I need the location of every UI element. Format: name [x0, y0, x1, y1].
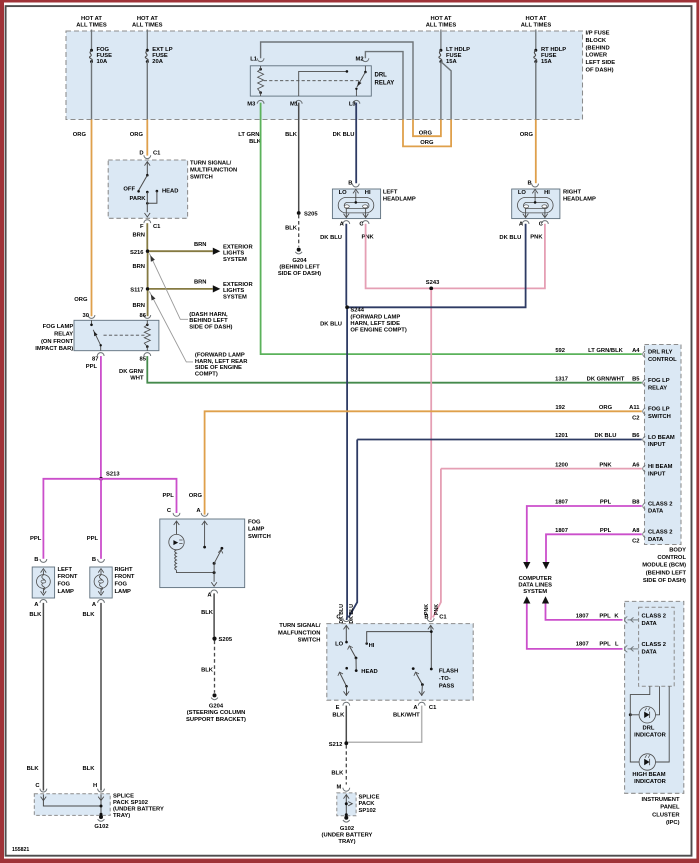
turn signal malfunction switch box (lower) — [327, 624, 473, 701]
Left Headlamp inner lamp stadium — [344, 202, 369, 208]
terminal 30 — [88, 315, 95, 318]
svg-text:TRAY): TRAY) — [338, 839, 355, 845]
svg-text:OF ENGINE COMPT): OF ENGINE COMPT) — [350, 328, 406, 334]
svg-text:F: F — [140, 224, 144, 230]
svg-text:DATA LINES: DATA LINES — [518, 582, 552, 588]
contact LO — [345, 641, 348, 644]
svg-text:DK BLU: DK BLU — [499, 235, 521, 241]
svg-text:HOT AT: HOT AT — [137, 16, 158, 22]
wire BLK dashed: S205 to G204 steering column — [214, 641, 216, 693]
Right Front Fog Lamp box — [90, 567, 112, 598]
wire PPL: fog relay 87 to S213 — [100, 356, 102, 477]
svg-text:DATA: DATA — [642, 649, 658, 655]
terminal L1 — [257, 58, 264, 61]
svg-text:SPLICE: SPLICE — [113, 794, 134, 800]
splice S205 (steering column) — [212, 637, 216, 641]
contact OFF — [137, 190, 140, 193]
svg-text:M: M — [336, 785, 341, 791]
svg-text:SYSTEM: SYSTEM — [223, 295, 247, 301]
Left Headlamp box — [332, 189, 380, 219]
svg-text:DRL: DRL — [375, 73, 388, 79]
svg-text:B: B — [34, 557, 38, 563]
svg-text:SWITCH: SWITCH — [298, 638, 321, 644]
wire LT HDLP fuse output straight down — [440, 62, 442, 120]
svg-text:1807: 1807 — [555, 500, 568, 506]
Right Front Fog Lamp internal wires — [98, 569, 104, 573]
fuse EXT LP FUSE 20A — [146, 49, 149, 52]
svg-text:C1: C1 — [439, 615, 447, 621]
wire BLK dashed: S205 to G204 — [298, 215, 300, 247]
wire DK BLU: S244 down to malfunction switch C — [346, 309, 349, 620]
svg-text:(BEHIND: (BEHIND — [586, 45, 610, 51]
Right Headlamp HI socket — [542, 205, 547, 208]
Left Headlamp terminal B — [352, 184, 359, 187]
splice pack SP102 internal bus — [344, 795, 350, 799]
svg-text:DRL RLY: DRL RLY — [648, 349, 673, 355]
svg-text:LO BEAM: LO BEAM — [648, 435, 675, 441]
contact HI — [365, 642, 368, 645]
Right Front Fog Lamp terminal B — [98, 559, 105, 562]
Left Headlamp terminal A — [343, 221, 350, 224]
svg-text:LAMP: LAMP — [58, 589, 75, 595]
svg-text:SIDE OF DASH): SIDE OF DASH) — [643, 578, 686, 584]
ground G102 (left splice pack) — [99, 815, 103, 819]
wire PNK: left headlamp C to S243 — [366, 224, 432, 289]
contact flash-to-pass fixed — [412, 667, 415, 670]
DRL indicator LED — [639, 707, 655, 723]
svg-text:86: 86 — [140, 313, 147, 319]
svg-text:BLK: BLK — [82, 766, 95, 772]
terminal B C1 of malfunction switch — [427, 618, 434, 621]
relay coil L1-M3 — [259, 68, 262, 71]
arrow to exterior lights system (lower) — [213, 285, 221, 292]
svg-text:DATA: DATA — [648, 537, 664, 543]
terminal F C1 of multifunction switch — [144, 220, 151, 223]
svg-text:HI BEAM: HI BEAM — [648, 464, 673, 470]
wire LT GRN/BLK: relay M3 to BCM A4 — [261, 103, 642, 355]
wire feed to FOG fuse — [91, 30, 93, 51]
svg-text:BODY: BODY — [669, 548, 686, 554]
svg-text:LAMP: LAMP — [248, 527, 265, 533]
svg-text:TURN SIGNAL/: TURN SIGNAL/ — [279, 623, 321, 629]
svg-text:(FORWARD LAMP: (FORWARD LAMP — [350, 315, 400, 321]
relay switch M2-L3 — [364, 66, 366, 72]
splice pack SP102 box (under battery tray) — [337, 793, 356, 816]
svg-text:EXTERIOR: EXTERIOR — [223, 282, 253, 288]
Left Front Fog Lamp terminal B — [40, 559, 47, 562]
svg-text:LIGHTS: LIGHTS — [223, 288, 244, 294]
svg-text:PPL: PPL — [163, 493, 175, 499]
svg-text:TURN SIGNAL/: TURN SIGNAL/ — [190, 160, 232, 166]
fog lamp relay box — [74, 320, 159, 350]
svg-text:PPL: PPL — [87, 536, 99, 542]
Right Headlamp terminal A — [522, 221, 529, 224]
wire PPL: computer data lines to IPC L — [527, 604, 623, 649]
svg-text:G102: G102 — [94, 824, 108, 830]
svg-text:HOT AT: HOT AT — [81, 16, 102, 22]
svg-text:CLASS 2: CLASS 2 — [642, 614, 666, 620]
svg-text:PACK SP102: PACK SP102 — [113, 800, 148, 806]
splice S216 — [146, 249, 150, 253]
wire PPL: BCM A8 to computer data lines — [546, 534, 642, 562]
svg-text:S244: S244 — [350, 308, 364, 314]
svg-text:FLASH: FLASH — [439, 669, 458, 675]
switch internal: PARK to F output — [146, 192, 148, 212]
svg-text:BLK: BLK — [201, 667, 214, 673]
svg-text:ALL TIMES: ALL TIMES — [132, 23, 163, 29]
svg-text:S205: S205 — [304, 212, 318, 218]
svg-text:-TO-: -TO- — [439, 676, 451, 682]
switch internal: HEAD to output link — [147, 191, 157, 203]
svg-text:SIDE OF DASH): SIDE OF DASH) — [278, 271, 321, 277]
Right Headlamp outer lamp stadium — [518, 198, 554, 213]
wire ORG: EXT LP fuse to multifunction switch D — [146, 120, 148, 156]
wire PNK: right headlamp C to S243 — [431, 224, 545, 289]
fog switch resistor coil — [175, 550, 177, 570]
fuse RT HDLP FUSE 15A — [534, 49, 537, 52]
wire DK BLU: malfunction switch C to BCM B6 (LO BEAM) — [349, 440, 642, 618]
svg-text:S205: S205 — [219, 637, 233, 643]
switch internal: lever to E — [340, 673, 347, 686]
svg-text:(IPC): (IPC) — [666, 820, 680, 826]
svg-text:PNK: PNK — [362, 235, 375, 241]
splice S212 — [344, 741, 348, 745]
terminal M3 — [257, 100, 264, 103]
Left Front Fog Lamp internal wires — [41, 569, 47, 573]
svg-text:192: 192 — [555, 405, 565, 411]
ground G102 (under battery tray) — [344, 816, 348, 820]
wire BRN: S117 to fog lamp relay 86 — [147, 291, 149, 317]
wire feed to RT HDLP fuse — [535, 30, 537, 51]
fog relay coil 86-85 — [146, 324, 149, 327]
svg-text:DK GRN/WHT: DK GRN/WHT — [587, 376, 625, 382]
svg-text:G102: G102 — [340, 826, 354, 832]
svg-text:FOG: FOG — [58, 582, 71, 588]
terminal A C1 of malfunction switch — [418, 702, 425, 705]
Left Front Fog Lamp terminal A — [40, 600, 47, 603]
svg-text:B8: B8 — [632, 500, 640, 506]
svg-text:DRL: DRL — [643, 725, 655, 731]
svg-text:(DASH HARN,: (DASH HARN, — [189, 312, 228, 318]
svg-text:M2: M2 — [356, 57, 364, 63]
svg-text:DATA: DATA — [648, 509, 664, 515]
svg-text:BRN: BRN — [132, 303, 145, 309]
terminal 86 — [144, 315, 151, 318]
svg-text:INPUT: INPUT — [648, 442, 666, 448]
svg-text:DK BLU: DK BLU — [333, 132, 355, 138]
svg-text:RELAY: RELAY — [375, 81, 395, 87]
splice S213 — [99, 477, 103, 481]
wire EXT LP fuse output (gray) — [146, 62, 148, 120]
svg-text:SWITCH: SWITCH — [190, 175, 213, 181]
svg-text:CONTROL: CONTROL — [657, 555, 686, 561]
svg-text:C2: C2 — [632, 539, 639, 545]
wire BRN: S117 branch to exterior lights — [149, 288, 213, 290]
wire BRN: switch F to S216 — [146, 223, 148, 249]
wire PNK: S243 to malfunction switch B — [430, 290, 433, 620]
fog switch internal C wire and indicator bulb — [174, 521, 180, 525]
wire M2 supply rail to x403 — [365, 52, 403, 120]
svg-text:1807: 1807 — [555, 528, 568, 534]
svg-text:C1: C1 — [153, 151, 161, 157]
splice S244 — [345, 305, 349, 309]
svg-text:FOG: FOG — [248, 520, 261, 526]
svg-text:S216: S216 — [130, 250, 144, 256]
switch internal: C input — [344, 625, 350, 629]
DRL relay box — [250, 66, 371, 96]
svg-text:MALFUNCTION: MALFUNCTION — [278, 630, 321, 636]
svg-text:G204: G204 — [209, 703, 224, 709]
ground G204 (behind left side of dash) — [297, 248, 301, 252]
wire DK GRN/WHT: fog relay 85 to BCM B5 — [147, 356, 642, 383]
svg-text:PPL: PPL — [599, 613, 611, 619]
switch internal: A output — [421, 685, 424, 696]
terminal 85 — [144, 353, 151, 356]
svg-text:BLK: BLK — [331, 770, 344, 776]
svg-text:FOG LAMP: FOG LAMP — [43, 324, 74, 330]
Left Headlamp internal A wire — [345, 208, 347, 218]
svg-text:PNK: PNK — [530, 235, 543, 241]
svg-text:RIGHT: RIGHT — [563, 190, 581, 196]
svg-text:(STEERING COLUMN: (STEERING COLUMN — [187, 710, 246, 716]
wire ORG: RT HDLP fuse to right headlamp B — [535, 120, 537, 184]
IPC pin L row — [625, 646, 628, 653]
svg-text:FOG: FOG — [115, 582, 128, 588]
I/P fuse block (behind lower left side of dash) — [66, 31, 583, 120]
svg-text:S243: S243 — [426, 280, 440, 286]
fog switch output to A (bottom) — [213, 573, 215, 582]
svg-text:15A: 15A — [446, 59, 457, 65]
svg-text:BRN: BRN — [194, 242, 207, 248]
svg-text:LO: LO — [335, 642, 344, 648]
switch internal: HEAD contact dot — [345, 667, 348, 670]
svg-text:G204: G204 — [292, 258, 307, 264]
svg-text:BRN: BRN — [132, 264, 145, 270]
terminal M2 — [362, 58, 369, 61]
switch internal: B input — [428, 625, 434, 629]
svg-text:PANEL: PANEL — [660, 805, 680, 811]
svg-text:L3: L3 — [349, 101, 357, 107]
wire BRN: S216 to S117 — [147, 253, 149, 288]
svg-text:PPL: PPL — [600, 500, 612, 506]
svg-text:H: H — [93, 783, 97, 789]
wire ORG U-link inner (L1 rail to LT HDLP fuse) — [413, 120, 441, 137]
svg-text:WHT: WHT — [130, 375, 144, 381]
svg-text:HI: HI — [369, 643, 375, 649]
svg-text:HOT AT: HOT AT — [431, 16, 452, 22]
IPC pin K row — [625, 617, 628, 624]
svg-text:ORG: ORG — [74, 297, 88, 303]
fog switch internal A contact — [202, 521, 208, 525]
svg-text:HEAD: HEAD — [162, 189, 178, 195]
switch internal: D input wire — [145, 162, 151, 166]
svg-text:ORG: ORG — [599, 405, 613, 411]
fuse FOG FUSE 10A — [90, 49, 93, 52]
svg-text:BEHIND LEFT: BEHIND LEFT — [189, 318, 228, 324]
svg-text:1201: 1201 — [555, 433, 569, 439]
ground G204 (steering column support bracket) — [213, 693, 217, 697]
svg-text:FRONT: FRONT — [58, 574, 78, 580]
svg-text:BRN: BRN — [132, 233, 145, 239]
svg-text:HIGH BEAM: HIGH BEAM — [632, 772, 665, 778]
svg-text:B: B — [424, 615, 428, 621]
svg-text:A11: A11 — [629, 405, 640, 411]
wire RT HDLP fuse output (gray) — [535, 62, 537, 120]
fog relay switch 30-87 — [91, 320, 93, 324]
svg-text:(BEHIND LEFT: (BEHIND LEFT — [646, 570, 687, 576]
svg-text:S117: S117 — [130, 288, 143, 294]
svg-text:DK BLU: DK BLU — [595, 433, 617, 439]
svg-text:S212: S212 — [329, 742, 343, 748]
svg-text:LOWER: LOWER — [586, 53, 608, 59]
svg-text:OFF: OFF — [123, 186, 135, 192]
wire FOG fuse output (gray) — [91, 62, 93, 120]
svg-text:HARN, LEFT REAR: HARN, LEFT REAR — [195, 359, 248, 365]
splice S117 — [146, 287, 150, 291]
terminal 87 — [97, 353, 104, 356]
svg-text:COMPUTER: COMPUTER — [519, 576, 553, 582]
left splice pack internal bus — [43, 795, 101, 807]
svg-text:CLUSTER: CLUSTER — [652, 812, 680, 818]
wire BLK: right fog lamp to splice pack H — [100, 603, 102, 791]
svg-text:ORG: ORG — [73, 132, 87, 138]
svg-text:FRONT: FRONT — [115, 574, 135, 580]
wire DK BLU: right headlamp A to S244 — [347, 224, 525, 307]
svg-text:OF DASH): OF DASH) — [586, 68, 614, 74]
svg-text:FOG LP: FOG LP — [648, 378, 670, 384]
svg-text:SYSTEM: SYSTEM — [523, 589, 547, 595]
svg-text:(UNDER BATTERY: (UNDER BATTERY — [113, 807, 164, 813]
svg-text:592: 592 — [555, 348, 565, 354]
svg-text:INPUT: INPUT — [648, 471, 666, 477]
IPC wiring from class 2 box to indicators — [630, 686, 650, 713]
terminal E of malfunction switch — [343, 702, 350, 705]
svg-text:COMPT): COMPT) — [195, 372, 218, 378]
terminal L3 — [353, 100, 360, 103]
svg-text:PPL: PPL — [86, 364, 98, 370]
wire ORG: fog lamp switch A up to BCM A11 — [205, 411, 642, 514]
wire feed to EXT LP fuse — [146, 30, 148, 51]
svg-text:RELAY: RELAY — [54, 331, 73, 337]
Right Headlamp LO socket — [524, 205, 529, 208]
svg-text:SP102: SP102 — [359, 808, 376, 814]
fuse LT HDLP FUSE 15A — [439, 49, 442, 52]
contact HEAD (lower switch) — [355, 669, 358, 672]
svg-text:SWITCH: SWITCH — [648, 414, 671, 420]
relay actuation dashed link — [264, 80, 360, 82]
svg-text:(UNDER BATTERY: (UNDER BATTERY — [322, 833, 373, 839]
switch lever to OFF — [139, 175, 148, 190]
svg-text:BLOCK: BLOCK — [586, 38, 607, 44]
svg-text:D: D — [139, 151, 143, 157]
Left Headlamp HI socket — [363, 205, 368, 208]
wire ORG: FOG fuse to fog lamp relay 30 — [91, 120, 93, 317]
fog lamp switch terminals C and A (top) — [173, 513, 180, 516]
svg-text:INDICATOR: INDICATOR — [634, 779, 666, 785]
arrow up from IPC K wire — [542, 596, 549, 603]
lever LO/HI — [350, 647, 356, 658]
svg-text:DK BLU: DK BLU — [320, 235, 342, 241]
svg-text:PACK: PACK — [359, 801, 376, 807]
svg-text:A6: A6 — [632, 462, 640, 468]
svg-text:PNK: PNK — [599, 462, 612, 468]
svg-text:PPL: PPL — [600, 528, 612, 534]
wire BRN: S216 branch to exterior lights — [149, 250, 213, 252]
svg-text:1807: 1807 — [576, 613, 589, 619]
contact HEAD — [156, 190, 159, 193]
svg-text:PNK: PNK — [434, 604, 440, 615]
Right Front Fog Lamp bulb — [94, 575, 108, 589]
wire BLK/WHT: switch A to S212 — [348, 706, 422, 743]
Right Headlamp internal B wire — [532, 189, 538, 193]
svg-text:IMPACT BAR): IMPACT BAR) — [35, 346, 73, 352]
svg-text:DATA: DATA — [642, 621, 658, 627]
svg-text:B6: B6 — [632, 433, 640, 439]
BCM pin A6 row PNK — [643, 465, 646, 472]
BCM pin B5 row DK GRN/WHT — [643, 379, 646, 386]
svg-text:MULTIFUNCTION: MULTIFUNCTION — [190, 167, 237, 173]
Left Headlamp internal C wire — [365, 208, 367, 218]
pointer line S216 to dash harn note — [149, 253, 188, 319]
svg-text:BLK/WHT: BLK/WHT — [393, 712, 420, 718]
svg-text:LT GRN/: LT GRN/ — [238, 132, 261, 138]
svg-text:155821: 155821 — [12, 847, 29, 853]
svg-text:1807: 1807 — [576, 642, 589, 648]
wire BLK: relay M1 to S205 — [298, 103, 300, 212]
wire IPC left bus to high beam indicator — [630, 713, 639, 762]
wire BLK: left fog lamp to splice pack C — [42, 603, 44, 791]
svg-text:BLK: BLK — [285, 132, 298, 138]
turn signal / multifunction switch box (upper) — [108, 160, 187, 218]
Right Front Fog Lamp terminal A — [98, 600, 105, 603]
wire PPL: computer data lines to IPC K — [546, 604, 623, 620]
svg-text:M1: M1 — [290, 101, 299, 107]
HIGH BEAM indicator LED — [639, 754, 655, 770]
svg-text:20A: 20A — [152, 59, 163, 65]
svg-text:M3: M3 — [247, 101, 256, 107]
svg-text:BLK: BLK — [29, 612, 42, 618]
svg-text:INDICATOR: INDICATOR — [634, 732, 666, 738]
svg-text:CLASS 2: CLASS 2 — [642, 642, 666, 648]
switch internal: HI link to B — [367, 632, 432, 644]
Right Headlamp internal A wire — [525, 208, 527, 218]
Left Headlamp LO socket — [344, 205, 349, 208]
svg-text:C1: C1 — [429, 705, 437, 711]
wire L1 supply rail to x413 — [261, 42, 413, 120]
svg-text:PASS: PASS — [439, 683, 454, 689]
svg-text:SWITCH: SWITCH — [248, 534, 271, 540]
svg-text:PPL: PPL — [599, 642, 611, 648]
svg-text:DK BLU: DK BLU — [349, 604, 355, 624]
svg-text:LT GRN/BLK: LT GRN/BLK — [588, 348, 623, 354]
svg-text:(BEHIND LEFT: (BEHIND LEFT — [279, 265, 320, 271]
svg-text:HEAD: HEAD — [361, 669, 377, 675]
Left Front Fog Lamp bulb — [37, 575, 51, 589]
svg-text:HI: HI — [365, 190, 371, 196]
svg-text:1200: 1200 — [555, 462, 568, 468]
svg-text:FOG LP: FOG LP — [648, 407, 670, 413]
wire BLK dashed: S212 to splice pack M — [345, 745, 347, 785]
Right Headlamp terminal C — [542, 221, 549, 224]
svg-text:A8: A8 — [632, 528, 640, 534]
Left Headlamp terminal C — [362, 221, 369, 224]
svg-text:LO: LO — [339, 190, 348, 196]
splice S205 — [297, 211, 301, 215]
svg-text:15A: 15A — [541, 59, 552, 65]
node junction DRL row — [629, 713, 632, 716]
svg-text:B: B — [348, 181, 352, 187]
arrow down to computer data lines (right) — [542, 562, 549, 569]
